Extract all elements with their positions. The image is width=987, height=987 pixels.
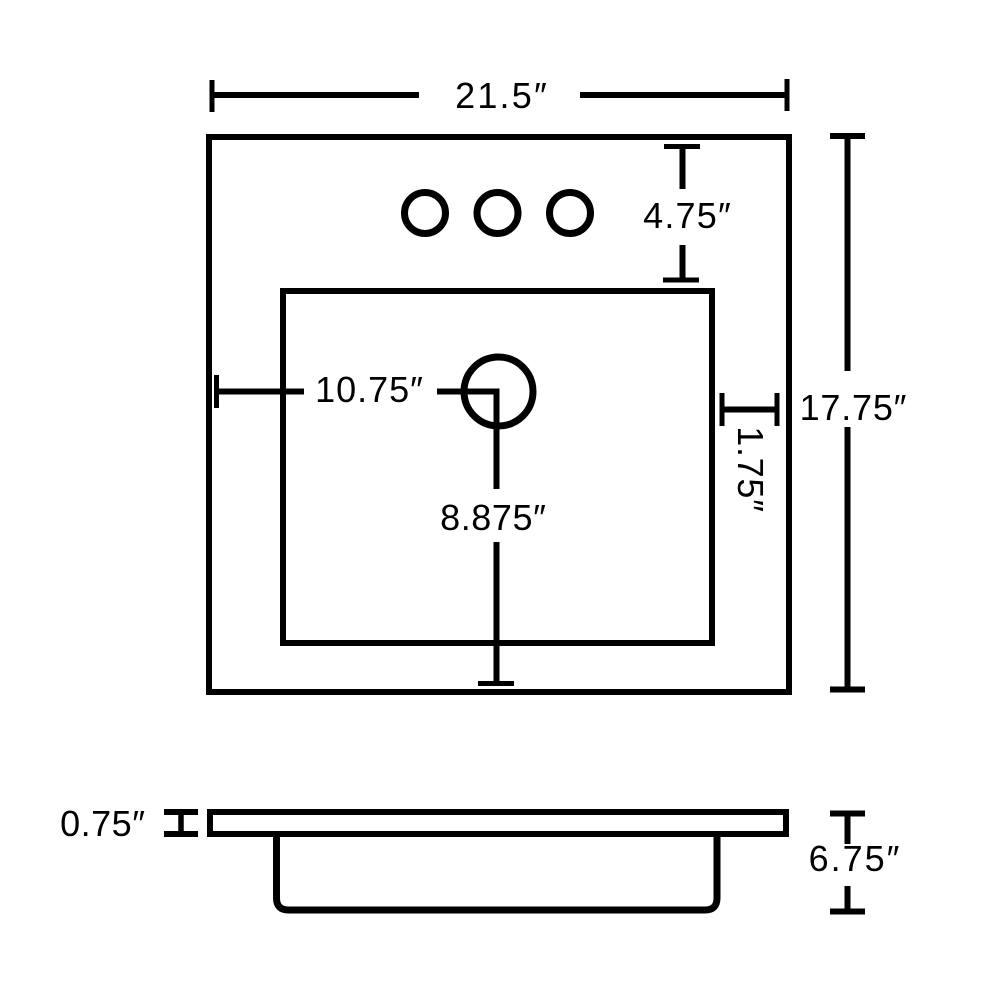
dimension 10.75in line right segment bbox=[437, 389, 500, 395]
basin bowl (side view) bbox=[277, 834, 718, 910]
faucet hole 3 bbox=[550, 193, 591, 234]
dimension 21.5in line right segment bbox=[580, 92, 787, 98]
drain hole circle bbox=[464, 357, 533, 426]
dimension 0.75in top tick bbox=[164, 809, 198, 815]
basin inner rectangle (top view) bbox=[283, 291, 712, 643]
svg-text:10.75″: 10.75″ bbox=[315, 369, 424, 410]
dimension 21.5in left tick bbox=[210, 80, 215, 112]
dimension 17.75in lower segment bbox=[845, 427, 851, 690]
dimension 4.75in bottom tick bbox=[663, 278, 699, 283]
svg-text:17.75″: 17.75″ bbox=[800, 387, 908, 428]
countertop slab (side view) bbox=[210, 812, 786, 834]
svg-text:0.75″: 0.75″ bbox=[60, 803, 145, 844]
svg-text:6.75″: 6.75″ bbox=[809, 838, 902, 879]
dimension 4.75in upper segment bbox=[680, 147, 686, 190]
dimension 17.75in bottom tick bbox=[830, 687, 865, 693]
dimension 4.75in top tick bbox=[664, 144, 700, 149]
dimension 0.75in bottom tick bbox=[164, 831, 198, 837]
dimension 8.875in bottom tick bbox=[478, 681, 514, 686]
dimension 10.75in left tick bbox=[214, 375, 219, 408]
dimension 6.75in top tick bbox=[830, 811, 865, 817]
svg-text:1.75″: 1.75″ bbox=[730, 426, 771, 512]
dimension 8.875in upper segment bbox=[494, 389, 500, 490]
dimension 4.75in lower segment bbox=[680, 245, 686, 280]
dimension 6.75in lower segment bbox=[845, 886, 851, 911]
dimension 1.75in line bbox=[722, 407, 777, 413]
dimension 17.75in upper segment bbox=[845, 136, 851, 371]
dimension 6.75in bottom tick bbox=[830, 909, 865, 915]
faucet hole 1 bbox=[405, 193, 446, 234]
dimension 6.75in upper segment bbox=[845, 814, 851, 845]
dimension 10.75in line left segment bbox=[217, 389, 305, 395]
dimension 1.75in left tick bbox=[720, 393, 725, 426]
dimension 21.5in right tick bbox=[785, 79, 790, 111]
dimension 21.5in line left segment bbox=[212, 92, 419, 98]
dimension 8.875in lower segment bbox=[494, 542, 500, 684]
dimension 0.75in connector bbox=[178, 812, 184, 834]
dimension 1.75in right tick bbox=[775, 393, 780, 426]
svg-text:4.75″: 4.75″ bbox=[643, 195, 732, 236]
svg-text:8.875″: 8.875″ bbox=[440, 497, 546, 538]
dimension 17.75in top tick bbox=[830, 133, 865, 139]
countertop outer rectangle (top view) bbox=[209, 137, 789, 692]
svg-text:21.5″: 21.5″ bbox=[455, 75, 549, 116]
faucet hole 2 bbox=[477, 193, 518, 234]
